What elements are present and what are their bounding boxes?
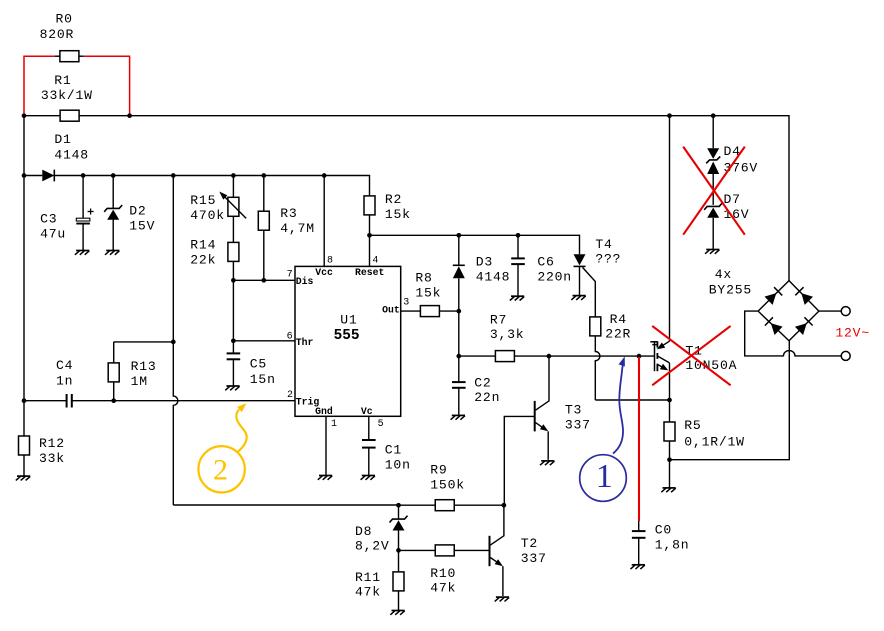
wire red highlighted loop (left+top segment)	[24, 56, 55, 115]
annotation blue circle 1	[580, 455, 627, 502]
wire R4 bottom (hops R7 row)	[595, 336, 600, 400]
svg-text:3: 3	[403, 297, 409, 308]
thyristor T4	[574, 254, 586, 265]
wire main top rail y=115.7	[24, 116, 789, 281]
wire Out row y=311.1	[401, 310, 459, 312]
node junction R13 tap	[171, 340, 176, 345]
svg-text:C5: C5	[250, 356, 267, 371]
transistor T3	[534, 401, 536, 432]
svg-text:R0: R0	[56, 12, 73, 27]
svg-text:15V: 15V	[129, 219, 155, 234]
svg-text:15n: 15n	[250, 372, 276, 387]
ground C3	[75, 251, 89, 255]
diode D7 zener	[704, 203, 722, 210]
svg-text:U1: U1	[340, 313, 357, 328]
svg-text:22k: 22k	[190, 253, 216, 268]
capacitor C2	[458, 356, 460, 382]
ic U1 555 box	[295, 266, 401, 416]
node junction D4 top	[711, 113, 716, 118]
resistor R10	[435, 545, 454, 556]
svg-text:1: 1	[596, 458, 613, 495]
ground C1	[361, 476, 375, 480]
wire bridge AC right lead	[819, 310, 841, 312]
resistor R1	[60, 110, 79, 121]
svg-text:R8: R8	[415, 271, 432, 286]
diode D8 zener	[398, 505, 400, 519]
svg-text:Thr: Thr	[296, 337, 314, 348]
ground R11	[390, 611, 404, 615]
svg-text:D8: D8	[355, 524, 372, 539]
svg-text:R13: R13	[131, 359, 157, 374]
svg-text:10n: 10n	[385, 457, 411, 472]
svg-text:Dis: Dis	[296, 276, 314, 287]
ground R12	[16, 476, 30, 480]
node junction R5 bottom	[667, 457, 672, 462]
svg-text:4x: 4x	[715, 267, 732, 282]
svg-text:C0: C0	[655, 523, 672, 538]
resistor R5	[669, 400, 671, 488]
terminal AC bottom	[841, 351, 850, 360]
transistor T1 MOSFET	[654, 341, 656, 371]
node junction D8 bottom	[396, 548, 401, 553]
wire mid-left vertical x=173.3 (hops Trig wire)	[173, 176, 178, 506]
svg-text:1M: 1M	[131, 374, 148, 389]
annotation blue arrow	[613, 365, 623, 454]
svg-text:R3: R3	[280, 206, 297, 221]
wire R0 left stub	[55, 55, 60, 57]
node junction D1 row left	[22, 173, 27, 178]
resistor R9	[435, 500, 454, 511]
svg-text:Out: Out	[382, 305, 400, 316]
capacitor C6	[517, 235, 519, 258]
svg-text:5: 5	[378, 419, 384, 430]
svg-text:BY255: BY255	[709, 283, 752, 298]
ground U1 pin1	[318, 476, 332, 480]
wire red highlighted loop (right segment)	[84, 56, 130, 115]
svg-text:2: 2	[213, 454, 228, 487]
node junction R14 bottom	[231, 278, 236, 283]
resistor R0	[60, 51, 79, 62]
wire Thr row y=340.8	[233, 340, 295, 342]
svg-text:R1: R1	[54, 73, 71, 88]
svg-text:C1: C1	[385, 443, 402, 458]
wire left rail x=24	[23, 116, 25, 476]
wire reset row y=235.3	[370, 235, 580, 254]
node junction T1 drain top	[667, 113, 672, 118]
node junction R13 bottom	[111, 398, 116, 403]
diode bridge bottom-right	[795, 323, 807, 335]
node junction left R1	[22, 113, 27, 118]
node junction D2	[111, 173, 116, 178]
wire Trig row y=400.7	[24, 400, 295, 402]
svg-text:22n: 22n	[474, 390, 500, 405]
svg-text:47u: 47u	[40, 226, 66, 241]
svg-text:R5: R5	[684, 418, 701, 433]
capacitor C0	[638, 521, 640, 531]
svg-text:R11: R11	[355, 570, 381, 585]
node junction Thr tap	[231, 338, 236, 343]
node junction top of mid-left vertical	[171, 173, 176, 178]
svg-text:D1: D1	[54, 132, 71, 147]
svg-text:Reset: Reset	[355, 267, 384, 278]
svg-text:T4: T4	[595, 237, 612, 252]
ground T4	[571, 296, 585, 300]
resistor R8	[420, 306, 439, 317]
svg-text:C6: C6	[537, 255, 554, 270]
annotation yellow circle 2	[198, 446, 244, 492]
resistor R12	[19, 436, 30, 455]
resistor R13	[114, 342, 174, 401]
ground D7	[705, 250, 719, 254]
ground T3	[540, 461, 554, 465]
svg-text:C3: C3	[40, 211, 57, 226]
capacitor C3	[82, 176, 84, 219]
svg-text:T3: T3	[565, 403, 582, 418]
wire R5 to bridge bottom	[670, 341, 790, 460]
node junction Trig left	[22, 398, 27, 403]
wire R9 row	[399, 504, 504, 506]
svg-text:4: 4	[372, 256, 378, 267]
svg-text:12V~: 12V~	[835, 326, 870, 341]
svg-text:???: ???	[595, 252, 621, 267]
svg-text:Vcc: Vcc	[315, 267, 333, 278]
annotation red X over T1	[652, 326, 730, 385]
node junction R8 out	[456, 309, 461, 314]
ground C5	[225, 386, 239, 390]
node junction T2 collector top	[502, 503, 507, 508]
wire bridge diamond	[758, 281, 819, 341]
wire R10 row y=550.4	[399, 549, 490, 551]
svg-text:47k: 47k	[430, 580, 456, 595]
svg-text:47k: 47k	[355, 585, 381, 600]
svg-text:4,7M: 4,7M	[280, 221, 315, 236]
wire bridge AC left lead (hops bridge minus wire)	[745, 311, 842, 356]
svg-text:1,8n: 1,8n	[655, 537, 690, 552]
capacitor C1	[368, 416, 370, 440]
wire x=458.8 down to R7 row	[458, 311, 460, 356]
capacitor C5	[232, 341, 234, 353]
node junction D3 top	[456, 233, 461, 238]
diode D4 TVS	[712, 116, 714, 149]
svg-text:R12: R12	[39, 436, 65, 451]
svg-text:1n: 1n	[56, 373, 73, 388]
svg-text:R9: R9	[430, 463, 447, 478]
node junction D8 top	[396, 503, 401, 508]
wire D1 row y=175.5	[24, 176, 370, 197]
svg-text:15k: 15k	[415, 286, 441, 301]
wire Dis row y=280.3	[233, 279, 295, 281]
wire R0 right stub	[79, 55, 84, 57]
svg-text:T1: T1	[685, 343, 702, 358]
transistor T2	[489, 536, 491, 566]
node junction R3 bottom	[261, 278, 266, 283]
resistor R4	[590, 317, 601, 336]
diode bridge top-left	[765, 293, 777, 305]
svg-text:C2: C2	[474, 376, 491, 391]
terminal AC top	[841, 307, 850, 316]
annotation red X over D4 D7	[683, 147, 745, 235]
svg-text:R15: R15	[190, 193, 216, 208]
svg-text:4148: 4148	[54, 148, 89, 163]
ground D2	[105, 251, 119, 255]
svg-text:3,3k: 3,3k	[490, 327, 525, 342]
svg-text:220n: 220n	[537, 270, 572, 285]
resistor R2	[369, 196, 371, 266]
svg-text:150k: 150k	[430, 478, 465, 493]
svg-text:R7: R7	[490, 312, 507, 327]
node junction right R1	[127, 113, 132, 118]
svg-text:8,2V: 8,2V	[355, 539, 390, 554]
svg-text:7: 7	[287, 270, 293, 281]
node junction C3	[81, 173, 86, 178]
node junction C6 top	[516, 233, 521, 238]
node junction T3 collector tap	[547, 354, 552, 359]
ground T2	[495, 597, 509, 601]
wire Gnd pin1	[325, 416, 327, 475]
resistor R7	[495, 351, 514, 362]
diode bridge top-right	[801, 293, 813, 305]
svg-text:R10: R10	[430, 566, 456, 581]
svg-text:T2: T2	[521, 536, 538, 551]
node junction R15 top	[231, 173, 236, 178]
capacitor C4	[66, 394, 68, 408]
node junction Vcc top	[322, 173, 327, 178]
node junction R2 bottom	[367, 233, 372, 238]
svg-text:820R: 820R	[40, 27, 75, 42]
wire R7 row y=356.1	[459, 355, 654, 357]
resistor R15 potentiometer	[232, 176, 234, 243]
svg-text:337: 337	[565, 418, 591, 433]
node junction R3 top	[261, 173, 266, 178]
node junction T1 source	[667, 398, 672, 403]
node junction R7 row left	[456, 354, 461, 359]
resistor R14	[232, 242, 234, 340]
svg-text:R2: R2	[385, 192, 402, 207]
resistor R3	[263, 176, 265, 281]
svg-text:R4: R4	[610, 312, 627, 327]
svg-text:22R: 22R	[605, 327, 631, 342]
svg-text:D3: D3	[476, 255, 493, 270]
ground C6	[510, 296, 524, 300]
ground C2	[451, 415, 465, 419]
resistor R11	[398, 550, 400, 610]
svg-text:1: 1	[331, 419, 337, 430]
annotation yellow arrow	[236, 410, 246, 453]
wire Vcc pin8 vertical	[323, 176, 325, 267]
diode D3	[458, 235, 460, 265]
ground R5	[661, 488, 675, 492]
diode D1	[42, 170, 54, 182]
svg-text:6: 6	[287, 332, 293, 343]
diode bridge bottom-left	[771, 323, 783, 335]
svg-text:D7: D7	[724, 192, 741, 207]
svg-text:15k: 15k	[385, 207, 411, 222]
diode D2 zener	[112, 176, 114, 209]
svg-text:D2: D2	[129, 204, 146, 219]
svg-text:33k/1W: 33k/1W	[41, 88, 93, 103]
svg-text:8: 8	[327, 256, 333, 267]
svg-text:0,1R/1W: 0,1R/1W	[684, 434, 744, 449]
svg-text:2: 2	[287, 390, 293, 401]
svg-text:337: 337	[521, 551, 547, 566]
svg-text:4148: 4148	[476, 270, 511, 285]
svg-text:470k: 470k	[190, 208, 225, 223]
annotation red probe line	[638, 357, 640, 521]
svg-text:Vc: Vc	[361, 406, 373, 417]
ground C0	[631, 565, 645, 569]
node junction T1 gate tap	[637, 354, 642, 359]
svg-text:C4: C4	[56, 358, 73, 373]
svg-text:R14: R14	[190, 238, 216, 253]
svg-text:555: 555	[334, 328, 360, 344]
svg-text:Gnd: Gnd	[315, 406, 333, 417]
svg-text:33k: 33k	[39, 451, 65, 466]
